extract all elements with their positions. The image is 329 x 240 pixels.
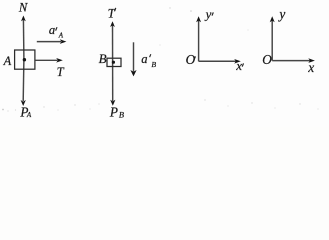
unprimed coordinate system O <box>262 7 315 76</box>
y' axis <box>198 19 200 61</box>
block B free-body diagram <box>99 5 157 119</box>
block A free-body diagram <box>3 1 67 120</box>
svg-text:x: x <box>235 58 242 73</box>
svg-text:B: B <box>99 51 107 66</box>
primed coordinate system O' <box>186 6 244 73</box>
svg-text:a: a <box>141 52 147 66</box>
svg-text:A: A <box>58 31 64 39</box>
tension T' arrowhead (up) <box>110 21 115 27</box>
svg-text:a: a <box>49 23 55 37</box>
x' axis <box>199 60 236 62</box>
svg-text:N: N <box>18 1 28 15</box>
acceleration a'_B arrow (down) <box>133 42 135 71</box>
svg-text:O: O <box>262 52 272 67</box>
x axis <box>272 60 310 62</box>
svg-text:T: T <box>57 65 65 79</box>
svg-text:T: T <box>108 5 116 20</box>
svg-text:B: B <box>119 111 124 120</box>
wire vertical line through block B <box>112 23 114 101</box>
svg-text:y: y <box>277 7 285 22</box>
svg-text:A: A <box>26 111 32 119</box>
wire vertical line through block A <box>22 18 25 60</box>
block A square <box>15 50 35 69</box>
y axis <box>271 19 273 61</box>
svg-text:A: A <box>3 54 12 68</box>
svg-text:x: x <box>307 60 314 75</box>
block B rectangle <box>107 58 121 66</box>
svg-text:O: O <box>186 52 196 67</box>
force N arrowhead (up) <box>21 16 26 22</box>
svg-text:y: y <box>204 6 212 21</box>
scan noise speckles <box>2 7 319 111</box>
block A center dot <box>23 58 26 61</box>
block B center dot <box>112 61 115 64</box>
svg-text:B: B <box>151 60 156 69</box>
svg-text:P: P <box>109 105 118 120</box>
acceleration a' arrow <box>37 41 61 43</box>
tension T arrow <box>35 59 57 61</box>
weight P_A arrowhead (down) <box>21 100 26 106</box>
weight P_B arrowhead (down) <box>110 100 115 106</box>
